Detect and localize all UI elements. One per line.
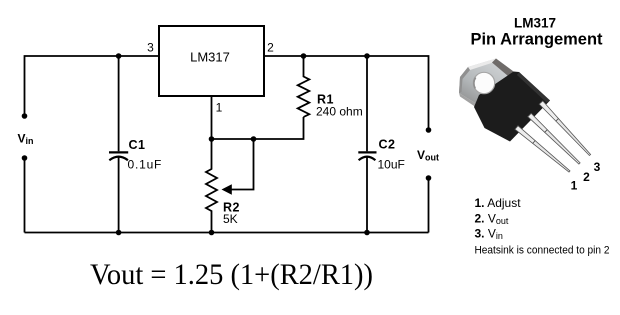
node junction pin1/R2 bbox=[209, 136, 215, 142]
svg-text:3: 3 bbox=[594, 160, 601, 174]
terminal Vout bottom dot bbox=[426, 175, 432, 181]
svg-text:3: 3 bbox=[147, 41, 154, 55]
node junction C2/top rail bbox=[364, 53, 370, 59]
svg-text:3. Vin: 3. Vin bbox=[475, 226, 503, 241]
svg-text:1. Adjust: 1. Adjust bbox=[475, 196, 522, 210]
wire adj node horizontal (pin1 to R1 bottom) bbox=[212, 117, 304, 139]
body top-right face bbox=[517, 72, 550, 103]
capacitor C1 top lead bbox=[118, 56, 120, 151]
node junction wiper tap bbox=[251, 136, 257, 142]
tab left shade bbox=[459, 67, 470, 93]
svg-text:240 ohm: 240 ohm bbox=[316, 105, 363, 119]
capacitor C2 bottom lead bbox=[366, 158, 368, 233]
svg-text:1: 1 bbox=[571, 179, 578, 193]
wire top rail right (pin 2 to Vout) bbox=[264, 56, 429, 129]
svg-text:Vout: Vout bbox=[417, 148, 439, 163]
terminal Vin bottom dot bbox=[22, 155, 28, 161]
leg 2 bbox=[528, 113, 580, 164]
node junction C2/bottom rail bbox=[364, 230, 370, 236]
wire pin 1 bbox=[211, 96, 213, 139]
svg-text:2: 2 bbox=[583, 170, 590, 184]
heatsink tab bbox=[459, 59, 514, 107]
capacitor C2 top plate bbox=[358, 151, 376, 153]
hole inner shadow bbox=[474, 78, 476, 89]
resistor R2 (potentiometer) bbox=[206, 139, 217, 233]
leg 1 bbox=[515, 126, 570, 172]
wire top rail left (Vin to pin 3) bbox=[25, 56, 160, 116]
tab top bevel bbox=[468, 59, 496, 71]
capacitor C2 curved plate bbox=[359, 157, 376, 161]
package body bbox=[474, 72, 550, 142]
svg-text:LM317: LM317 bbox=[514, 16, 556, 31]
node junction C1/bottom rail bbox=[116, 230, 122, 236]
capacitor C1 curved plate bbox=[109, 157, 128, 161]
resistor R1 bbox=[298, 56, 310, 117]
svg-text:2: 2 bbox=[267, 41, 274, 55]
node junction R1/top rail bbox=[301, 53, 307, 59]
svg-text:LM317: LM317 bbox=[190, 50, 230, 65]
capacitor C2 top lead bbox=[366, 56, 368, 151]
svg-text:1: 1 bbox=[216, 101, 223, 115]
capacitor C1 bottom lead bbox=[118, 158, 120, 233]
svg-text:5K: 5K bbox=[223, 212, 238, 226]
node junction R2/bottom rail bbox=[209, 230, 215, 236]
regulator U1 LM317 box bbox=[159, 26, 264, 96]
leg 3 bbox=[539, 101, 590, 156]
wire Vout bottom to rail bbox=[428, 178, 430, 233]
tab mounting hole bbox=[473, 72, 494, 93]
svg-text:C1: C1 bbox=[129, 138, 146, 152]
svg-text:10uF: 10uF bbox=[378, 158, 405, 172]
svg-text:Pin Arrangement: Pin Arrangement bbox=[471, 30, 603, 49]
node junction C1/top rail bbox=[116, 53, 122, 59]
tab bottom shade bbox=[459, 93, 480, 109]
svg-text:Heatsink is connected to pin 2: Heatsink is connected to pin 2 bbox=[475, 245, 610, 257]
svg-text:0.1uF: 0.1uF bbox=[128, 158, 163, 172]
wiper arrowhead bbox=[222, 184, 232, 194]
wire bottom rail bbox=[25, 232, 429, 234]
capacitor C1 top plate bbox=[109, 151, 128, 153]
wiper wire of R2 bbox=[229, 139, 254, 190]
terminal Vout top dot bbox=[426, 127, 432, 133]
TO-220 package photo bbox=[459, 59, 591, 173]
svg-text:2. Vout: 2. Vout bbox=[475, 211, 509, 226]
svg-text:Vin: Vin bbox=[18, 132, 34, 147]
tab right dark band bbox=[492, 59, 514, 77]
svg-text:Vout = 1.25 (1+(R2/R1)): Vout = 1.25 (1+(R2/R1)) bbox=[90, 258, 373, 291]
svg-text:C2: C2 bbox=[379, 138, 396, 152]
terminal Vin top dot bbox=[22, 113, 28, 119]
wire Vin bottom to ground rail bbox=[24, 158, 26, 233]
